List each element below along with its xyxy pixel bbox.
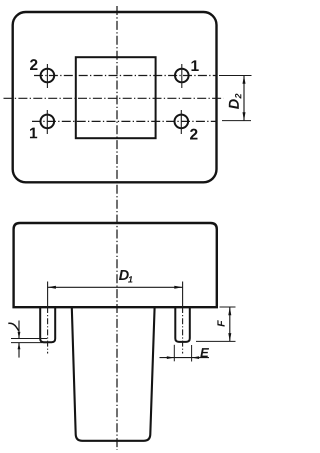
label 2 bottom-right [190, 129, 197, 140]
D2 dimension line [243, 76, 245, 121]
D1 label [119, 270, 129, 280]
hole bottom-left (1) [41, 115, 55, 129]
F extension line top (from body bottom) [220, 306, 236, 308]
E arrow (points left at right ext) [192, 356, 200, 359]
hole top-left (2) [41, 69, 55, 83]
D2 arrow up [243, 76, 246, 84]
D2 extension line bottom [222, 120, 251, 122]
D1 arrow left [48, 286, 56, 289]
J dimension arrow lower (points up) [18, 343, 20, 358]
crosshair hole bottom-right [180, 110, 182, 134]
crosshair hole top-left [46, 64, 48, 88]
D2 extension line top [219, 75, 252, 77]
hole bottom-right (2) [175, 115, 189, 129]
F extension line bottom (from pin bottom) [196, 340, 236, 342]
F dimension line [229, 307, 231, 341]
main horizontal center line of top view [4, 97, 224, 99]
E extension line left [173, 345, 175, 362]
E dimension line [160, 357, 210, 359]
J dimension arrow upper (points down) [18, 321, 20, 339]
central boss [72, 308, 155, 441]
center line row 2 (through holes 1 and 2) [32, 120, 217, 122]
J label [8, 323, 18, 331]
D2 label [229, 94, 241, 109]
top view plate outline [13, 12, 217, 182]
lower view body outline [14, 223, 217, 307]
center line row 1 (through holes 2 and 1) [34, 75, 217, 77]
left pin [40, 308, 55, 343]
F label [217, 320, 224, 326]
J extension line upper [11, 338, 47, 340]
left pin center line [47, 282, 49, 308]
F arrow up [228, 307, 231, 315]
right pin [175, 308, 190, 342]
E arrow (points right at left ext) [167, 356, 175, 359]
right pin center line [182, 282, 184, 308]
label 1 bottom-left [30, 128, 37, 139]
D2 arrow down [243, 112, 246, 120]
D1 arrow right [174, 286, 182, 289]
inner square opening [76, 57, 156, 138]
D1 dimension line [48, 286, 183, 288]
J extension line lower [11, 342, 48, 344]
E extension line right [191, 345, 193, 362]
crosshair hole top-right [181, 64, 183, 88]
E label [200, 348, 209, 357]
label 2 top-left [30, 59, 37, 70]
crosshair hole bottom-left [46, 110, 48, 134]
label 1 top-right [191, 60, 198, 71]
hole top-right (1) [175, 69, 189, 83]
vertical center line (shared axis of both views) [116, 6, 118, 450]
F arrow down [228, 333, 231, 341]
